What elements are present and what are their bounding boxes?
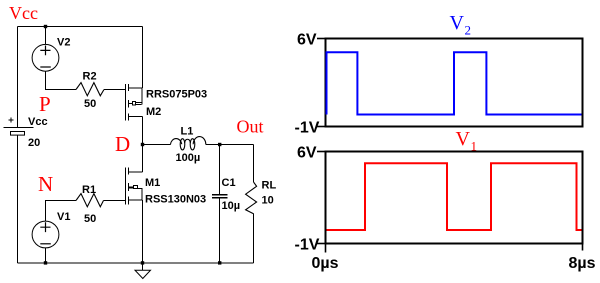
battery Vcc long plate (4, 127, 34, 129)
svg-text:-1V: -1V (295, 237, 320, 254)
plot V1 tick 6V (317, 151, 325, 153)
source V2 minus (40, 66, 51, 68)
plot V1 box (326, 152, 583, 244)
plot V2 box (326, 39, 583, 127)
junction dot ground stem (141, 261, 144, 264)
mosfet M1 channel ticks (128, 168, 130, 205)
wire V2 top stub (45, 27, 47, 45)
svg-text:V1: V1 (57, 211, 70, 223)
svg-text:V: V (456, 128, 471, 150)
source V2 circle (32, 44, 59, 71)
ground symbol (142, 263, 144, 270)
plot V1 tick 0µs (325, 245, 327, 253)
wire output corner down to RL (253, 145, 255, 183)
wire bottom ground rail (18, 262, 254, 264)
svg-text:Vcc: Vcc (9, 3, 38, 23)
svg-text:50: 50 (84, 98, 96, 110)
waveform V2 (blue) (327, 52, 582, 114)
source V2 plus (40, 46, 50, 56)
resistor R2 (76, 83, 104, 96)
source V1 plus (40, 222, 50, 232)
wire L1 to output corner (206, 144, 254, 146)
svg-text:20: 20 (28, 137, 40, 149)
svg-text:100µ: 100µ (176, 152, 201, 164)
svg-text:RSS130N03: RSS130N03 (145, 194, 206, 206)
capacitor C1 top lead (219, 145, 221, 195)
junction dot C1 bottom (218, 261, 221, 264)
svg-text:P: P (39, 92, 51, 116)
plot V2 tick -1V (317, 126, 325, 128)
mosfet M1 bulk arrow stub (129, 187, 134, 189)
svg-text:M1: M1 (145, 177, 160, 189)
wire top rail Vcc (18, 26, 143, 28)
mosfet M1 gate bar (125, 168, 127, 205)
svg-text:C1: C1 (222, 177, 236, 189)
mosfet M2 source stub (top) (129, 87, 143, 89)
svg-text:6V: 6V (297, 145, 317, 162)
wire V1 to ground rail (45, 248, 47, 263)
svg-text:D: D (115, 132, 130, 156)
svg-text:8µs: 8µs (569, 255, 596, 272)
svg-text:R1: R1 (82, 184, 96, 196)
resistor RL (246, 182, 257, 214)
svg-text:L1: L1 (181, 126, 194, 138)
mosfet M1 source stub (bottom) (129, 199, 143, 201)
svg-text:Out: Out (237, 117, 264, 137)
waveform V1 (red) (327, 163, 582, 230)
battery Vcc plus mark (9, 118, 14, 123)
source V1 minus (40, 243, 51, 245)
svg-text:50: 50 (84, 213, 96, 225)
junction dot node D (141, 143, 144, 146)
battery Vcc short plate (11, 132, 25, 136)
inductor L1 (170, 139, 181, 145)
svg-text:RRS075P03: RRS075P03 (146, 89, 207, 101)
svg-text:1: 1 (471, 139, 478, 154)
wire V2 bottom stub (46, 71, 77, 89)
mosfet M2 bulk arrow stub (129, 103, 133, 105)
wire node D to M1 drain (142, 145, 144, 172)
svg-text:10: 10 (262, 195, 274, 207)
svg-text:10µ: 10µ (222, 200, 241, 212)
svg-text:-1V: -1V (295, 120, 320, 137)
capacitor C1 plates (212, 195, 228, 198)
wire R1 to M1 gate (104, 200, 126, 202)
mosfet M2 drain stub (bottom) (129, 116, 143, 118)
junction dot C1 top (218, 143, 221, 146)
wire node D to L1 (143, 144, 171, 146)
plot V2 tick 6V (317, 38, 325, 40)
wire Vcc rail to M2 source (142, 27, 144, 89)
svg-text:Vcc: Vcc (28, 116, 48, 128)
mosfet M2 bulk-source tie (141, 88, 143, 105)
mosfet M1 drain stub (top) (129, 171, 143, 173)
capacitor C1 bottom lead (219, 198, 221, 263)
mosfet M1 bulk-source tie (141, 189, 143, 201)
mosfet M2 channel ticks (128, 84, 130, 121)
wire N corner to R1 (46, 201, 77, 222)
junction dot top rail / V2 (44, 25, 47, 28)
mosfet M2 gate bar (125, 84, 127, 121)
source V1 circle (32, 221, 59, 248)
svg-text:N: N (38, 172, 53, 196)
wire M2 drain to node D (142, 117, 144, 145)
svg-text:R2: R2 (83, 71, 97, 83)
wire M1 source to ground rail (142, 200, 144, 263)
svg-text:6V: 6V (297, 32, 317, 49)
wire RL to ground rail (253, 214, 255, 263)
resistor R1 (76, 194, 104, 207)
junction dot V1 bottom (44, 261, 47, 264)
svg-text:2: 2 (465, 23, 472, 38)
plot V1 tick -1V (317, 243, 325, 245)
svg-text:V: V (450, 12, 465, 34)
svg-text:RL: RL (262, 180, 277, 192)
wire left vertical upper (17, 27, 19, 128)
svg-text:0µs: 0µs (312, 255, 339, 272)
plot V1 tick 8µs (582, 245, 584, 251)
svg-text:M2: M2 (146, 106, 161, 118)
wire left vertical lower (17, 136, 19, 264)
wire R2 to M2 gate (104, 89, 126, 91)
svg-text:V2: V2 (57, 37, 70, 49)
